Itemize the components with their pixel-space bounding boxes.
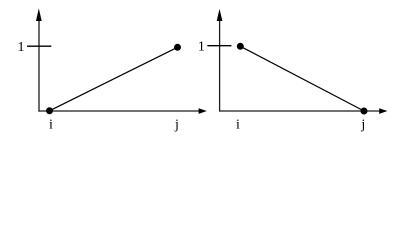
- svg-text:j: j: [360, 118, 365, 133]
- left plot y-axis: [38, 15, 40, 112]
- right plot dot at j (on axis): [361, 108, 368, 115]
- left plot tick at y=1: [27, 45, 51, 47]
- right plot line from i to j: [240, 46, 364, 111]
- left plot x-axis arrowhead: [199, 108, 207, 114]
- svg-text:1: 1: [18, 40, 25, 55]
- left plot x-axis: [38, 110, 200, 112]
- svg-text:i: i: [49, 117, 53, 132]
- left plot y-axis arrowhead: [36, 8, 42, 21]
- right plot y-axis: [219, 15, 221, 112]
- svg-text:j: j: [174, 118, 179, 133]
- right plot tick at y=1: [207, 45, 231, 47]
- svg-text:i: i: [236, 117, 240, 132]
- left plot line from i to j: [50, 47, 178, 111]
- svg-text:1: 1: [198, 39, 205, 54]
- left plot dot at j (height 1): [174, 44, 181, 51]
- left plot dot at i (origin): [46, 107, 53, 114]
- right plot x-axis arrowhead: [379, 108, 387, 114]
- right plot y-axis arrowhead: [217, 9, 223, 21]
- right plot dot at i (height 1): [237, 43, 244, 50]
- right plot x-axis: [219, 110, 381, 112]
